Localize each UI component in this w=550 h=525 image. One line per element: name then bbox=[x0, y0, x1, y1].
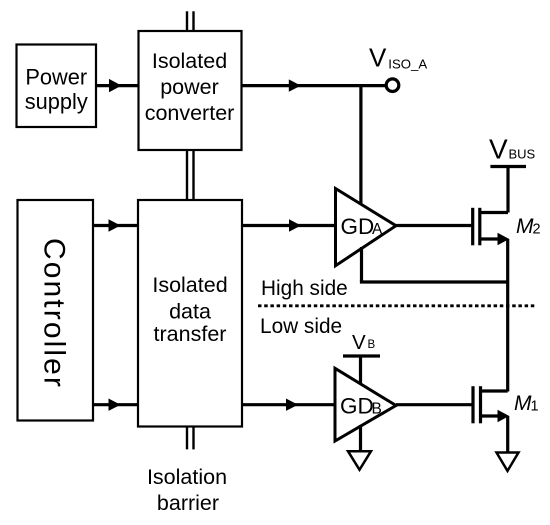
wire: M2 source down to M1 drain bbox=[506, 239, 509, 392]
svg-text:GD: GD bbox=[340, 394, 374, 419]
label M1 bbox=[514, 392, 539, 415]
V_B supply bar bbox=[343, 354, 380, 357]
isolation barrier double line bottom bbox=[187, 426, 194, 450]
transistor M2 bbox=[473, 208, 510, 246]
svg-text:Power: Power bbox=[25, 65, 87, 90]
svg-text:Controller: Controller bbox=[38, 238, 71, 389]
transistor M1 bbox=[473, 386, 509, 423]
svg-text:B: B bbox=[372, 401, 382, 418]
block: Power supply bbox=[17, 45, 97, 128]
wire: power supply to converter bbox=[96, 79, 139, 92]
svg-text:supply: supply bbox=[25, 89, 88, 114]
svg-text:Isolation: Isolation bbox=[147, 465, 227, 489]
svg-text:2: 2 bbox=[533, 222, 541, 238]
isolation barrier double line middle bbox=[187, 149, 194, 201]
svg-text:Isolated: Isolated bbox=[152, 49, 227, 73]
svg-text:A: A bbox=[372, 221, 383, 238]
wire: controller to data transfer (top) bbox=[93, 219, 138, 231]
svg-text:V: V bbox=[369, 43, 387, 73]
ground: GD_B bbox=[348, 451, 371, 470]
svg-text:transfer: transfer bbox=[154, 322, 227, 346]
svg-text:power: power bbox=[160, 75, 219, 99]
wire: GD_A reference to high side node bbox=[360, 247, 508, 282]
svg-text:barrier: barrier bbox=[157, 491, 219, 515]
svg-text:1: 1 bbox=[531, 399, 539, 415]
svg-text:data: data bbox=[169, 300, 211, 324]
label V_BUS bbox=[489, 134, 536, 165]
svg-text:V: V bbox=[489, 134, 508, 165]
svg-text:M: M bbox=[516, 215, 534, 238]
svg-text:Isolated: Isolated bbox=[152, 273, 227, 297]
svg-text:M: M bbox=[514, 392, 532, 415]
label V_ISO_A bbox=[369, 43, 427, 73]
label V_B bbox=[352, 331, 376, 354]
ground: M1 bbox=[497, 453, 519, 471]
svg-text:Low side: Low side bbox=[260, 315, 342, 338]
wire: converter to V_ISO_A terminal bbox=[242, 79, 386, 91]
label: Isolation barrier bbox=[147, 465, 227, 515]
svg-text:ISO_A: ISO_A bbox=[388, 57, 427, 72]
wire: GD_B reference down bbox=[359, 425, 362, 452]
svg-text:BUS: BUS bbox=[509, 147, 536, 162]
wire: M1 source to ground bbox=[506, 416, 509, 454]
svg-text:converter: converter bbox=[145, 101, 235, 125]
wire: GD_B output to M1 gate bbox=[396, 403, 472, 406]
V_BUS supply bar bbox=[490, 165, 526, 168]
isolation barrier double line top bbox=[187, 11, 194, 32]
terminal circle V_ISO_A bbox=[386, 79, 399, 92]
gate driver GD_A bbox=[336, 189, 397, 266]
wire: GD_A output to M2 gate bbox=[396, 224, 471, 227]
svg-text:B: B bbox=[368, 339, 376, 351]
svg-text:High side: High side bbox=[261, 277, 348, 300]
svg-text:GD: GD bbox=[341, 214, 375, 239]
block: Controller bbox=[18, 200, 94, 421]
svg-text:V: V bbox=[352, 331, 366, 354]
wire: data transfer to GD_B bbox=[242, 399, 335, 411]
wire: V_B to GD_B supply bbox=[359, 356, 362, 386]
label M2 bbox=[516, 215, 541, 238]
block: Isolated data transfer bbox=[138, 200, 242, 427]
divider dotted line bbox=[258, 304, 536, 307]
block: Isolated power converter bbox=[139, 31, 242, 150]
wire: data transfer to GD_A bbox=[242, 219, 336, 231]
wire: controller to data transfer (bottom) bbox=[93, 399, 138, 411]
wire: V_ISO_A down to gate driver A supply bbox=[359, 86, 362, 206]
wire: V_BUS to M2 drain bbox=[506, 167, 509, 213]
gate driver GD_B bbox=[335, 368, 396, 441]
